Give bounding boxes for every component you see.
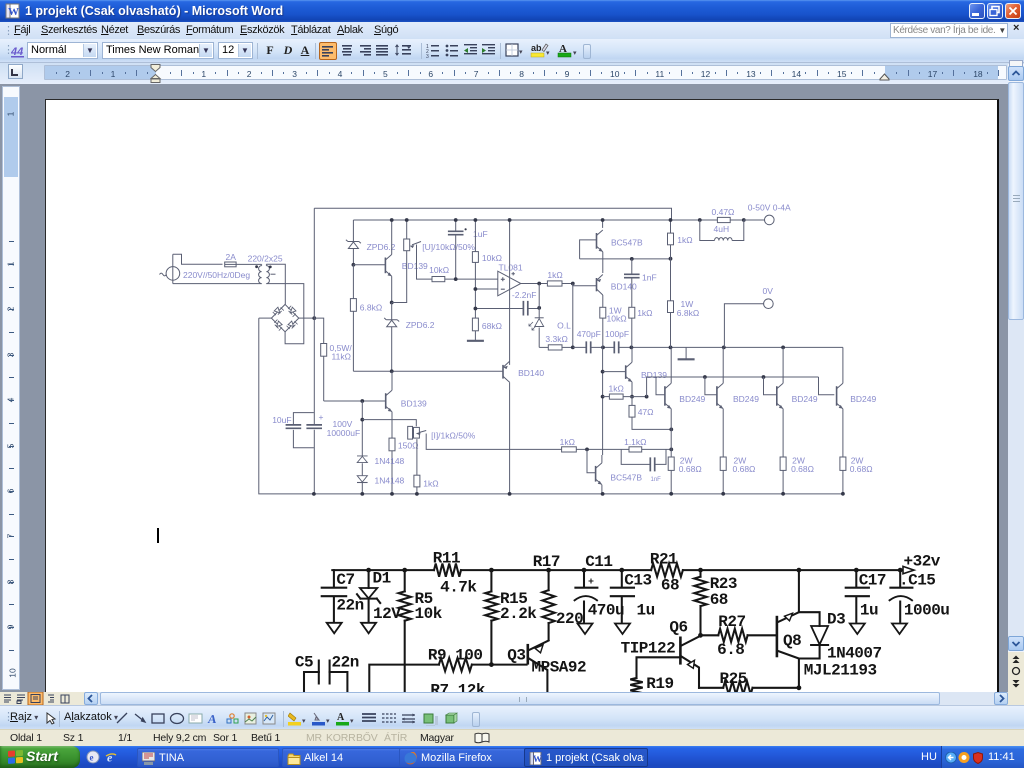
transistor T3 BD140 upper (597, 275, 638, 308)
potentiometer P1 [U]/10k/50% (392, 218, 476, 302)
svg-text:1kΩ: 1kΩ (637, 308, 652, 318)
svg-text:10kΩ: 10kΩ (607, 314, 627, 324)
svg-text:A: A (207, 712, 218, 726)
svg-text:BD139: BD139 (641, 370, 667, 380)
ground D1 (361, 623, 376, 634)
top border wire (314, 208, 671, 220)
svg-text:0.68Ω: 0.68Ω (679, 464, 702, 474)
resistor R4 68k (472, 318, 502, 340)
svg-text:1kΩ: 1kΩ (560, 437, 575, 447)
svg-text:68kΩ: 68kΩ (482, 321, 502, 331)
transistor T5 BD139 lower (386, 371, 427, 438)
wire fuse to transformer (236, 263, 262, 265)
svg-text:W: W (533, 754, 542, 764)
resistor R8 1k mid (629, 307, 653, 347)
svg-text:Q8: Q8 (783, 632, 801, 650)
resistor R9 100 (369, 646, 526, 694)
resistor R16 1.1k (624, 437, 673, 452)
svg-text:ZPD6.2: ZPD6.2 (406, 320, 435, 330)
zener D1 12V (357, 568, 401, 623)
resistor R14 1k below pot (414, 439, 439, 496)
resistor R23 0.68R emitter (780, 456, 814, 496)
svg-text:2.2k: 2.2k (500, 605, 537, 623)
main supply rail (353, 219, 743, 221)
svg-text:e: e (107, 751, 113, 765)
wire BC547B base loop (580, 240, 597, 259)
output terminal 0V (724, 286, 773, 348)
inductor L1 4uH (700, 220, 744, 241)
svg-text:68: 68 (710, 591, 728, 609)
svg-text:C13: C13 (624, 572, 651, 590)
svg-text:10k: 10k (415, 605, 443, 623)
diode D3 1N4007 (799, 610, 882, 662)
capacitor C15 1000u (889, 568, 950, 622)
svg-text:R25: R25 (720, 670, 747, 688)
capacitor C11 470u (574, 553, 624, 622)
svg-text:Q6: Q6 (669, 619, 687, 637)
svg-text:C7: C7 (336, 571, 354, 589)
transistor Q2 BD249 (705, 347, 759, 457)
svg-text:100pF: 100pF (605, 329, 629, 339)
svg-text:W: W (8, 6, 19, 18)
resistor R5 1k op out (521, 270, 575, 286)
resistor R25 (699, 670, 799, 694)
resistor R1 6.8k (350, 265, 382, 372)
svg-text:+32v: +32v (904, 553, 941, 571)
wire secondary bottom detour (266, 284, 303, 344)
svg-text:D1: D1 (373, 570, 391, 588)
capacitor C5 22n (295, 653, 359, 694)
svg-text:[I]/1kΩ/50%: [I]/1kΩ/50% (431, 431, 476, 441)
wire 1k node down (571, 284, 575, 350)
op-amp U1 TL081 (498, 262, 523, 296)
transformer TR1 (248, 253, 283, 283)
transistor T7 BD139 driver (603, 347, 668, 398)
svg-text:R27: R27 (718, 613, 745, 631)
LED D5 O.L (529, 308, 571, 348)
wire base line long (353, 369, 503, 373)
resistor R12 0.5W/11k (314, 318, 352, 401)
svg-text:R19: R19 (646, 675, 673, 693)
svg-text:▾: ▾ (302, 718, 306, 725)
resistor R11 0.47R (698, 207, 746, 223)
capacitor C8 1nF lower (621, 449, 666, 483)
resistor R10 1W/6.8k (668, 299, 700, 347)
svg-text:BD249: BD249 (850, 394, 876, 404)
output terminal plus (744, 202, 791, 224)
transistor T1 BD139 upper (353, 218, 428, 304)
transistor T2 BC547B upper (597, 218, 643, 273)
text cursor (157, 528, 159, 543)
svg-text:10uF: 10uF (272, 415, 291, 425)
transistor Q3 BD249 (764, 347, 818, 457)
svg-text:47Ω: 47Ω (638, 407, 654, 417)
capacitor C7 22n (322, 570, 364, 622)
svg-text:11kΩ: 11kΩ (332, 351, 351, 361)
svg-text:1kΩ: 1kΩ (677, 235, 692, 245)
svg-text:BC547B: BC547B (610, 473, 642, 483)
svg-text:+: + (319, 412, 324, 422)
svg-text:10kΩ: 10kΩ (429, 265, 449, 275)
svg-text:O.L: O.L (557, 321, 571, 331)
svg-text:470u: 470u (588, 602, 624, 620)
capacitor C17 1u (846, 568, 886, 622)
capacitor C2 10uF loop (272, 413, 314, 448)
svg-text:BD249: BD249 (679, 394, 705, 404)
wire source top jog (173, 254, 223, 264)
svg-text:BD140: BD140 (611, 281, 637, 291)
transistor Q6 TIP122 (621, 619, 703, 688)
capacitor C3 1uF (448, 218, 488, 281)
left return rail (259, 318, 843, 494)
svg-text:22n: 22n (332, 653, 359, 671)
svg-text:1kΩ: 1kΩ (423, 478, 438, 488)
ground at 68k (467, 340, 484, 342)
resistor R15 2.2k (485, 568, 537, 665)
resistor R5 10k (399, 568, 443, 694)
wire primary bottom (173, 283, 262, 285)
transistor Q8 MJL21193 (777, 568, 877, 691)
svg-text:0-50V 0-4A: 0-50V 0-4A (748, 202, 791, 212)
wire bridge right to plus rail (299, 316, 316, 320)
svg-text:Q3: Q3 (507, 646, 525, 664)
svg-text:1u: 1u (637, 602, 655, 620)
svg-text:3: 3 (426, 54, 429, 58)
diode D7 1N4148 (357, 476, 405, 496)
svg-text:▾: ▾ (326, 718, 330, 725)
svg-text:C17: C17 (859, 572, 886, 590)
svg-text:2A: 2A (226, 252, 237, 262)
ground at rail (678, 347, 695, 359)
capacitor C7 1nF (624, 259, 657, 307)
resistor R23 68 (694, 568, 737, 636)
wire op out down (538, 284, 540, 308)
resistor R9 1k right (668, 218, 693, 301)
svg-text:A: A (337, 712, 345, 723)
svg-text:6.8kΩ: 6.8kΩ (360, 302, 382, 312)
svg-text:BD249: BD249 (733, 394, 759, 404)
svg-text:220/2x25: 220/2x25 (248, 253, 283, 263)
resistor R13 150R (389, 438, 418, 496)
wire Q6 base + resistor R19 (630, 657, 680, 700)
svg-text:D3: D3 (827, 610, 845, 628)
resistor R24 0.68R emitter (840, 456, 873, 496)
svg-text:C5: C5 (295, 653, 313, 671)
wire minus input (474, 287, 498, 291)
transistor Q3 MPSA92 (507, 641, 586, 695)
resistor R3 10k vertical (472, 218, 502, 318)
resistor R18 47R (629, 397, 673, 432)
svg-text:R9 100: R9 100 (428, 646, 483, 664)
svg-text:▾: ▾ (519, 49, 523, 56)
capacitor C5 470pF (573, 329, 615, 354)
wire node 259 (580, 257, 673, 261)
resistor R21 0.68R emitter (668, 456, 702, 496)
resistor R2 10k horizontal (429, 265, 498, 282)
resistor R21 68 (650, 551, 683, 595)
svg-text:0.68Ω: 0.68Ω (733, 464, 756, 474)
svg-text:0.68Ω: 0.68Ω (791, 464, 814, 474)
svg-text:4.7k: 4.7k (440, 578, 477, 596)
svg-text:1kΩ: 1kΩ (547, 270, 562, 280)
wire pot I wiper (426, 434, 561, 450)
wire 11k to BD139 base (324, 399, 386, 403)
ground C7 (327, 623, 342, 634)
transistor T6 BC547B lower (587, 449, 642, 495)
svg-text:0V: 0V (763, 286, 774, 296)
svg-text:4uH: 4uH (714, 224, 730, 234)
wire bridge left to left rail (259, 317, 272, 319)
svg-text:0.47Ω: 0.47Ω (712, 207, 735, 217)
ground C13 (615, 624, 630, 635)
resistor R27 6.8 (701, 613, 776, 659)
svg-text:MJL21193: MJL21193 (804, 662, 877, 680)
wire BC547 collector up (601, 347, 605, 455)
svg-text:150Ω: 150Ω (398, 440, 419, 450)
svg-text:1000u: 1000u (904, 602, 950, 620)
AC source V1 220V/50Hz (160, 254, 180, 283)
svg-text:1N4007: 1N4007 (827, 644, 882, 662)
svg-text:▾: ▾ (546, 50, 550, 57)
svg-text:1N4148: 1N4148 (375, 476, 405, 486)
svg-text:1.1kΩ: 1.1kΩ (624, 437, 646, 447)
svg-text:▾: ▾ (350, 718, 354, 725)
svg-text:0.68Ω: 0.68Ω (850, 464, 873, 474)
svg-text:e: e (90, 753, 94, 763)
diode D6 1N4148 (357, 401, 405, 475)
ground C11 (578, 624, 593, 635)
wire BD140 base (573, 284, 597, 286)
svg-text:3.3kΩ: 3.3kΩ (545, 334, 567, 344)
svg-text:R17: R17 (533, 553, 560, 571)
svg-text:TIP122: TIP122 (621, 639, 676, 657)
zener Z2 ZPD6.2 lower (384, 303, 435, 372)
svg-text:6.8kΩ: 6.8kΩ (677, 308, 699, 318)
wire secondary top to bridge (266, 264, 285, 304)
capacitor C4 2.2nF feedback (474, 290, 542, 316)
svg-text:▾: ▾ (573, 50, 577, 57)
transistor Q1 BD249 (656, 347, 706, 457)
wire pot U wiper down (417, 245, 433, 280)
svg-text:.C15: .C15 (899, 572, 935, 590)
svg-text:[U]/10kΩ/50%: [U]/10kΩ/50% (422, 242, 475, 252)
svg-text:10000uF: 10000uF (327, 428, 361, 438)
label source (183, 270, 250, 280)
zener Z1 ZPD6.2 upper (346, 220, 396, 267)
capacitor C13 1u (611, 568, 655, 622)
svg-text:BD139: BD139 (401, 398, 427, 408)
svg-text:1u: 1u (860, 602, 878, 620)
op-amp power rail wire (508, 218, 512, 365)
svg-text:TL081: TL081 (499, 262, 523, 272)
svg-text:-2.2nF: -2.2nF (512, 290, 537, 300)
svg-text:470pF: 470pF (577, 329, 601, 339)
svg-text:68: 68 (661, 576, 679, 594)
potentiometer P2 [I]/1k/50% (362, 420, 475, 441)
capacitor C1 100V/10000uF (306, 412, 360, 438)
svg-text:1nF: 1nF (651, 477, 662, 483)
power rail +32v (332, 553, 941, 574)
svg-text:ab: ab (531, 43, 542, 53)
plus rail left border (312, 208, 316, 496)
svg-text:R21: R21 (650, 551, 677, 569)
resistor R6 3.3k (539, 334, 573, 350)
svg-text:220V//50Hz/0Deg: 220V//50Hz/0Deg (183, 270, 250, 280)
svg-text:BC547B: BC547B (611, 237, 643, 247)
svg-text:BD140: BD140 (518, 368, 544, 378)
svg-text:BD139: BD139 (402, 261, 428, 271)
svg-text:C11: C11 (585, 553, 612, 571)
transistor T4 BD140 lower (503, 361, 544, 496)
svg-text:1kΩ: 1kΩ (609, 384, 624, 394)
resistor R7 1W/10k (600, 306, 627, 348)
capacitor C6 100pF (601, 329, 843, 354)
svg-text:BD249: BD249 (792, 394, 818, 404)
ground C15 (892, 624, 907, 635)
resistor R22 0.68R emitter (720, 456, 755, 496)
fuse F1 2A (225, 252, 237, 267)
wire base bus to BD249s (647, 375, 819, 397)
resistor R7 12k cut label (430, 682, 486, 700)
bridge rectifier D1-D4 (271, 304, 298, 331)
resistor R17 220 (533, 553, 584, 640)
svg-text:R11: R11 (433, 550, 460, 568)
resistor R11 4.7k (433, 550, 478, 597)
resistor R17 1k driver (603, 384, 649, 400)
transistor Q4 BD249 (819, 347, 877, 457)
svg-text:MPSA92: MPSA92 (532, 658, 587, 676)
svg-text:1nF: 1nF (642, 272, 657, 282)
ground C17 (850, 624, 865, 635)
svg-text:6.8: 6.8 (717, 641, 744, 659)
svg-text:1N4148: 1N4148 (375, 456, 405, 466)
resistor R15 1k to BC547 base (560, 437, 629, 452)
